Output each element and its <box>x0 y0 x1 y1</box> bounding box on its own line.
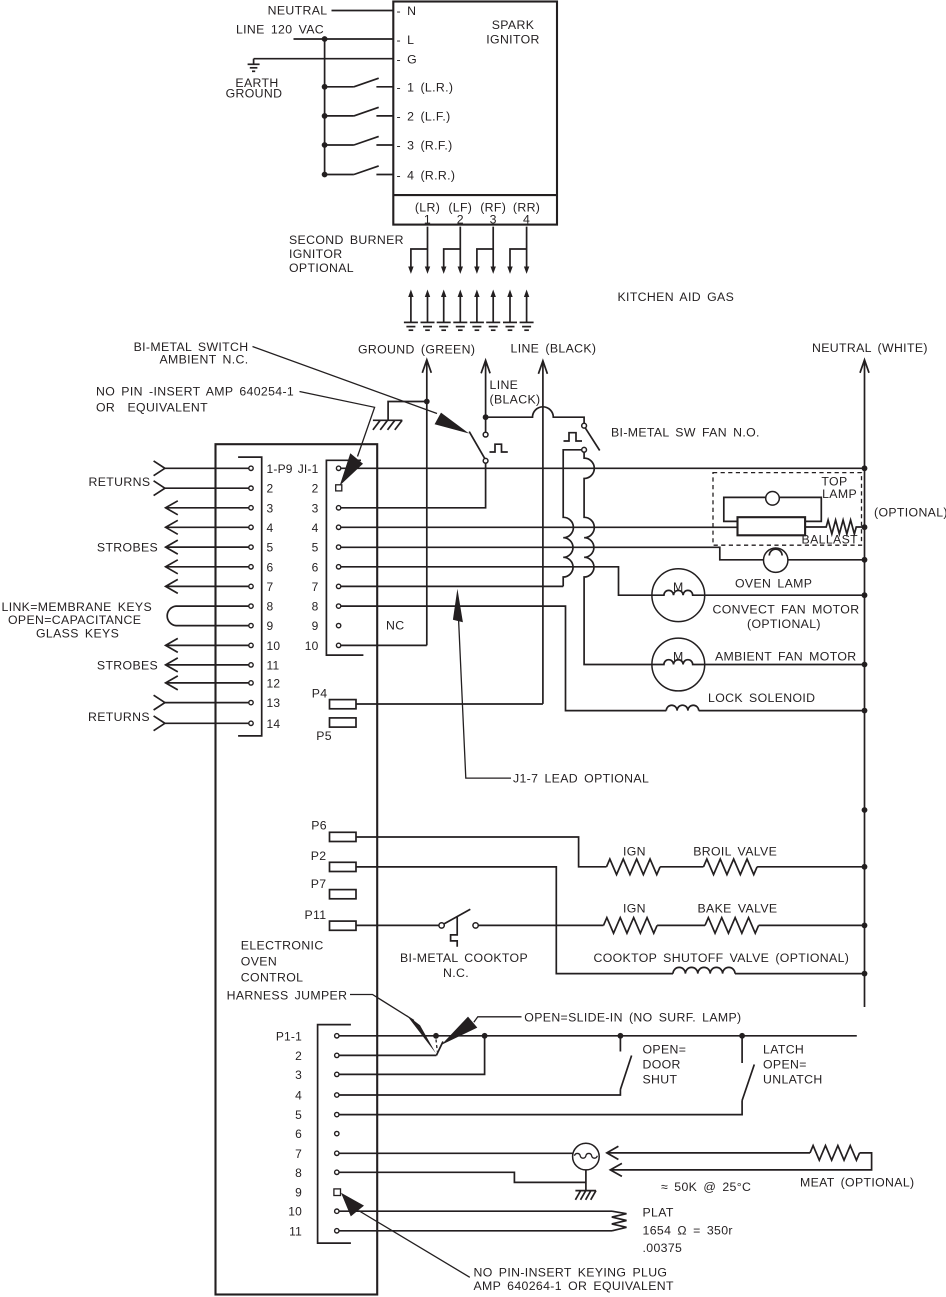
P9 pin 14 <box>249 721 253 725</box>
svg-text:8: 8 <box>267 600 274 614</box>
top lamp tube <box>738 517 806 535</box>
JI-1 pin 5 <box>336 545 340 549</box>
svg-text:AMP 640264-1 OR EQUIVALENT: AMP 640264-1 OR EQUIVALENT <box>474 1279 675 1293</box>
svg-text:LINE 120 VAC: LINE 120 VAC <box>236 23 324 37</box>
svg-text:BALLAST: BALLAST <box>802 533 859 547</box>
annotation line slide-in <box>474 1017 522 1023</box>
P9 return wire 2 <box>154 481 249 496</box>
output label (RR) 4 <box>513 201 540 227</box>
svg-text:AMBIENT FAN MOTOR: AMBIENT FAN MOTOR <box>715 650 856 664</box>
wire cooktop switch to bake ignitor <box>478 924 603 926</box>
P9 pin 10 <box>249 643 253 647</box>
svg-text:- 2 (L.F.): - 2 (L.F.) <box>397 110 451 124</box>
neutral junction dot ambient motor <box>862 662 868 668</box>
svg-text:KITCHEN AID GAS: KITCHEN AID GAS <box>618 290 735 304</box>
meat probe sensor <box>573 1143 600 1170</box>
P9 pin labels <box>267 462 293 731</box>
svg-text:OR EQUIVALENT: OR EQUIVALENT <box>96 401 208 415</box>
svg-text:CONVECT FAN MOTOR: CONVECT FAN MOTOR <box>713 603 860 617</box>
P9 strobe wire 6 <box>166 560 249 574</box>
junction dot door switch <box>618 1033 624 1039</box>
oven lamp <box>764 548 788 572</box>
svg-text:LOCK SOLENOID: LOCK SOLENOID <box>708 691 815 705</box>
P9 strobe wire 11 <box>166 658 249 672</box>
svg-text:P5: P5 <box>316 729 332 743</box>
svg-text:OPEN=: OPEN= <box>763 1058 807 1072</box>
ballast resistor <box>805 520 864 534</box>
label PLAT values <box>643 1206 733 1256</box>
wire line branch to fan switch <box>486 407 584 423</box>
svg-text:STROBES: STROBES <box>97 541 158 555</box>
svg-text:- 4 (R.R.): - 4 (R.R.) <box>397 169 456 183</box>
svg-text:11: 11 <box>289 1224 302 1238</box>
wire ambient motor to neutral <box>705 664 865 666</box>
label CONVECT FAN MOTOR (OPTIONAL) <box>713 603 860 632</box>
wire P1-11 <box>339 1230 612 1232</box>
svg-text:OPTIONAL: OPTIONAL <box>289 261 354 275</box>
wire P1-2 <box>339 1054 436 1056</box>
svg-text:10: 10 <box>288 1205 302 1219</box>
membrane link loop pins 8-9 <box>167 606 249 626</box>
P1 pin 5 <box>335 1112 339 1116</box>
P9 pin 5 <box>249 545 253 549</box>
junction dot pin3 riser <box>482 1033 488 1039</box>
svg-text:7: 7 <box>312 580 319 594</box>
P9 strobe wire 7 <box>166 579 249 593</box>
wire broil valve to neutral <box>757 866 864 868</box>
wire ground tap to chassis ground <box>388 402 427 420</box>
svg-text:LAMP: LAMP <box>822 487 857 501</box>
svg-text:5: 5 <box>267 541 274 555</box>
wire shutoff valve to neutral <box>735 973 865 975</box>
junction dot line/bus <box>322 36 328 42</box>
junction dot switch 2 <box>322 113 328 119</box>
P6 stub <box>330 832 357 841</box>
harness jumper contact <box>436 1040 443 1056</box>
svg-text:3: 3 <box>490 213 497 227</box>
svg-text:6: 6 <box>312 560 319 574</box>
svg-text:IGN: IGN <box>623 845 646 859</box>
svg-text:≈ 50K @ 25°C: ≈ 50K @ 25°C <box>661 1180 751 1194</box>
P9 pin 13 <box>249 700 253 704</box>
label LINE (BLACK) branch <box>490 378 541 407</box>
svg-text:IGN: IGN <box>623 902 646 916</box>
P5 stub <box>330 718 357 727</box>
P9 strobe wire 10 <box>166 638 249 652</box>
P9 pin 8 <box>249 604 253 608</box>
wire P2 to cooktop shutoff valve <box>356 867 673 974</box>
P9 connector bracket <box>238 457 262 736</box>
svg-text:4: 4 <box>523 213 530 227</box>
svg-text:5: 5 <box>312 541 319 555</box>
wire JI-1 pin 7 <box>341 585 564 587</box>
neutral junction dot convect motor <box>862 592 868 598</box>
svg-text:GROUND (GREEN): GROUND (GREEN) <box>358 343 475 357</box>
cooktop shutoff valve coil <box>673 967 735 973</box>
meat resistor <box>810 1146 860 1161</box>
svg-text:BAKE VALVE: BAKE VALVE <box>698 902 778 916</box>
svg-text:CONTROL: CONTROL <box>241 971 304 985</box>
annotation line keying plug <box>359 1211 470 1278</box>
svg-text:IGNITOR: IGNITOR <box>289 247 342 261</box>
svg-text:9: 9 <box>267 619 274 633</box>
bi-metal fan switch N.O. <box>564 423 600 452</box>
svg-text:GLASS KEYS: GLASS KEYS <box>36 627 119 641</box>
P1 pin labels <box>276 1029 302 1238</box>
wire P4 to line rail <box>356 703 543 705</box>
wire bake valve to neutral <box>759 924 865 926</box>
label NO PIN-INSERT KEYING PLUG AMP 640264-1 OR EQUIVALENT <box>474 1266 675 1294</box>
P2 stub <box>330 862 357 871</box>
svg-text:5: 5 <box>295 1108 302 1122</box>
junction dot switch 4 <box>322 172 328 178</box>
burner output wire 1 <box>408 227 430 274</box>
svg-text:2: 2 <box>312 482 319 496</box>
wire JI-1 pin 5 to oven lamp <box>341 547 764 560</box>
P1 pin 2 <box>335 1053 339 1057</box>
wire P1-4 to door switch <box>339 1090 620 1096</box>
PLAT resistor <box>612 1211 627 1231</box>
JI-1 pin 7 <box>336 584 340 588</box>
wire JI-1 pin 10 to ground rail <box>341 644 427 646</box>
neutral junction dot row1 <box>862 465 868 471</box>
svg-text:RETURNS: RETURNS <box>89 475 151 489</box>
svg-text:OVEN LAMP: OVEN LAMP <box>735 577 812 591</box>
svg-text:JI-1: JI-1 <box>298 462 319 476</box>
svg-text:UNLATCH: UNLATCH <box>763 1073 823 1087</box>
probe chassis ground <box>575 1191 596 1200</box>
top lamp dashed enclosure <box>713 473 862 546</box>
svg-text:(OPTIONAL): (OPTIONAL) <box>874 506 946 520</box>
svg-text:P2: P2 <box>311 849 327 863</box>
svg-text:2: 2 <box>267 482 274 496</box>
wire earth to pin G <box>254 58 394 60</box>
wire fan switch to ambient fan motor <box>584 452 652 664</box>
door switch stub <box>619 1036 621 1052</box>
wire ambient switch to JI-1 pin 3 <box>341 463 486 508</box>
P1 pin 6 <box>335 1131 339 1135</box>
P1 pin 1 <box>335 1034 339 1038</box>
label SECOND BURNER IGNITOR OPTIONAL <box>289 233 404 275</box>
svg-text:SPARK: SPARK <box>492 18 535 32</box>
lock solenoid coil <box>666 705 698 710</box>
label EARTH GROUND <box>226 76 283 101</box>
burner output wire 3 <box>474 227 496 274</box>
svg-text:IGNITOR: IGNITOR <box>486 33 539 47</box>
label ELECTRONIC OVEN CONTROL <box>241 939 324 985</box>
wire line to pin L <box>294 38 394 40</box>
second burner ignitor electrode 6 <box>486 290 500 331</box>
P9 pin 1 <box>249 466 253 470</box>
bi-metal cooktop switch N.C. <box>439 909 478 947</box>
line branch arrow <box>481 360 490 432</box>
label LINK=MEMBRANE KEYS OPEN=CAPACITANCE GLASS KEYS <box>2 600 153 641</box>
svg-text:4: 4 <box>312 521 319 535</box>
svg-text:- 1 (L.R.): - 1 (L.R.) <box>397 81 454 95</box>
svg-text:P7: P7 <box>311 877 327 891</box>
svg-text:NEUTRAL: NEUTRAL <box>268 4 328 18</box>
annotation line to JI-1 pin 2 <box>300 392 375 457</box>
annotation arrowhead ambient switch <box>435 413 469 434</box>
P1 pin 9 keyed no-pin <box>334 1189 341 1196</box>
svg-text:PLAT: PLAT <box>643 1206 674 1220</box>
P1 pin 8 <box>335 1170 339 1174</box>
wire fan switch to JI-1 pin 7 riser <box>563 450 582 587</box>
top lamp starter <box>766 492 780 506</box>
wire P1-8 to probe ground <box>339 1172 586 1182</box>
svg-text:6: 6 <box>295 1127 302 1141</box>
svg-text:COOKTOP SHUTOFF VALVE (OPTIONA: COOKTOP SHUTOFF VALVE (OPTIONAL) <box>594 951 850 965</box>
svg-text:RETURNS: RETURNS <box>88 710 150 724</box>
second burner ignitor electrode 2 <box>421 290 435 331</box>
svg-text:12: 12 <box>267 676 281 690</box>
svg-text:13: 13 <box>267 696 281 710</box>
svg-text:NC: NC <box>386 619 404 633</box>
svg-text:3: 3 <box>312 501 319 515</box>
wire JI-1 pin 1 to neutral <box>341 467 865 469</box>
JI-1 pin 3 <box>336 506 340 510</box>
P9 return wire 1 <box>154 461 249 476</box>
wire oven lamp to neutral <box>788 559 865 561</box>
JI-1 pin 9 <box>336 623 340 627</box>
svg-text:J1-7 LEAD OPTIONAL: J1-7 LEAD OPTIONAL <box>513 772 649 786</box>
bus wire <box>324 39 326 175</box>
svg-text:- 3 (R.F.): - 3 (R.F.) <box>397 139 453 153</box>
wire JI-1 pin 8 to lock solenoid <box>341 606 667 711</box>
convect fan motor M1 <box>652 569 705 622</box>
JI-1 pin 2 keyed no-pin <box>336 485 342 491</box>
junction dot switch 3 <box>322 142 328 148</box>
wire P1-10 <box>339 1210 612 1212</box>
label BI-METAL COOKTOP N.C. <box>400 951 528 980</box>
neutral junction dot shutoff <box>862 971 868 977</box>
svg-text:8: 8 <box>312 600 319 614</box>
output label (RF) 3 <box>480 201 506 227</box>
P9 strobe wire 5 <box>166 540 249 554</box>
svg-text:BROIL VALVE: BROIL VALVE <box>693 845 777 859</box>
P9 pin 2 <box>249 486 253 490</box>
svg-text:GROUND: GROUND <box>226 87 283 101</box>
wire neutral to pin N <box>332 10 394 12</box>
P9 strobe wire 4 <box>166 520 249 534</box>
svg-text:STROBES: STROBES <box>97 659 158 673</box>
P9 strobe wire 3 <box>166 501 249 515</box>
burner switch 4 <box>325 166 394 175</box>
svg-text:1: 1 <box>424 213 431 227</box>
P9 strobe wire 12 <box>166 676 249 690</box>
svg-text:SHUT: SHUT <box>643 1073 678 1087</box>
meat probe stem <box>585 1170 587 1191</box>
svg-text:AMBIENT N.C.: AMBIENT N.C. <box>159 353 248 367</box>
annotation arrowhead harness jumper <box>406 1015 436 1054</box>
svg-text:3: 3 <box>267 501 274 515</box>
P9 return wire 13 <box>154 695 249 710</box>
second burner ignitor electrode 1 <box>404 290 418 331</box>
broil valve resistor <box>704 859 758 875</box>
neutral junction dot broil <box>862 864 868 870</box>
ground rail arrow <box>422 360 431 646</box>
svg-text:P4: P4 <box>312 687 328 701</box>
P1 pin 4 <box>335 1093 339 1097</box>
svg-text:14: 14 <box>267 717 281 731</box>
svg-text:MEAT (OPTIONAL): MEAT (OPTIONAL) <box>800 1176 914 1190</box>
svg-text:2: 2 <box>295 1049 302 1063</box>
second burner ignitor electrode 4 <box>453 290 467 331</box>
svg-text:LINK=MEMBRANE KEYS: LINK=MEMBRANE KEYS <box>2 600 153 614</box>
JI-1 pin 4 <box>336 525 340 529</box>
wire P11 to cooktop switch <box>356 924 439 926</box>
wire JI-1 pin 4 to top lamp <box>341 526 738 528</box>
svg-text:P6: P6 <box>311 819 327 833</box>
wire ign to bake valve <box>657 924 705 926</box>
neutral junction dot oven lamp <box>862 557 868 563</box>
wire P1-5 to latch switch <box>339 1101 742 1115</box>
svg-text:7: 7 <box>267 580 274 594</box>
svg-text:7: 7 <box>295 1147 302 1161</box>
bake valve resistor <box>705 918 759 934</box>
P4 stub <box>330 700 357 709</box>
second burner ignitor electrode 5 <box>470 290 484 331</box>
svg-text:3: 3 <box>295 1068 302 1082</box>
output label (LF) 2 <box>448 201 472 227</box>
burner switch 1 <box>325 78 394 87</box>
JI-1 pin 8 <box>336 604 340 608</box>
svg-text:11: 11 <box>267 658 280 672</box>
second burner ignitor electrode 3 <box>437 290 451 331</box>
annotation arrowhead keying plug <box>341 1193 364 1217</box>
svg-text:OVEN: OVEN <box>241 955 277 969</box>
svg-text:10: 10 <box>305 639 319 653</box>
P1 pin 3 <box>335 1072 339 1076</box>
wire P1-3 to pin1 <box>339 1036 485 1075</box>
bake ignitor resistor IGN <box>604 918 658 934</box>
annotation arrowhead JI-1 pin 2 <box>340 453 363 485</box>
door switch blade <box>620 1056 631 1090</box>
meat probe arrow upper <box>607 1146 810 1159</box>
svg-text:- N: - N <box>397 4 417 18</box>
spark ignitor module box <box>393 2 557 225</box>
P1 pin 7 <box>335 1151 339 1155</box>
junction dot switch 1 <box>322 84 328 90</box>
electronic oven control board box <box>216 444 378 1294</box>
wire P6 to broil ignitor <box>356 837 607 867</box>
P1 connector bracket <box>318 1025 351 1244</box>
label LATCH OPEN= UNLATCH <box>763 1043 823 1087</box>
P9 pin 4 <box>249 525 253 529</box>
second burner ignitor electrode 8 <box>520 290 534 331</box>
P1 pin 11 <box>335 1229 339 1233</box>
P9 pin 11 <box>249 663 253 667</box>
svg-text:2: 2 <box>457 213 464 227</box>
svg-text:P11: P11 <box>304 908 326 922</box>
neutral junction dot lock solenoid <box>862 708 868 714</box>
JI-1 pin 6 <box>336 565 340 569</box>
label TOP LAMP <box>821 475 857 502</box>
neutral junction dot bake <box>862 923 868 929</box>
svg-text:10: 10 <box>267 639 281 653</box>
label OPEN= DOOR SHUT <box>643 1043 687 1087</box>
chassis ground symbol <box>373 420 402 430</box>
svg-text:- L: - L <box>397 33 415 47</box>
burner output wire 2 <box>441 227 463 274</box>
svg-text:LATCH: LATCH <box>763 1043 804 1057</box>
svg-text:- G: - G <box>397 53 418 67</box>
P1 pin 10 <box>335 1209 339 1213</box>
junction dot jumper <box>433 1033 439 1039</box>
broil ignitor resistor IGN <box>607 859 661 875</box>
burner switch 3 <box>325 136 394 145</box>
P11 stub <box>330 921 357 930</box>
svg-text:SECOND BURNER: SECOND BURNER <box>289 233 404 247</box>
neutral junction dot ballast <box>862 524 868 530</box>
svg-text:1654 Ω = 350r: 1654 Ω = 350r <box>643 1224 733 1238</box>
svg-text:4: 4 <box>295 1089 302 1103</box>
second burner ignitor electrode 7 <box>503 290 517 331</box>
svg-text:LINE (BLACK): LINE (BLACK) <box>511 342 597 356</box>
wire ign to broil valve <box>660 866 703 868</box>
wire convect motor to neutral <box>705 594 865 596</box>
junction dot line branch <box>483 414 489 420</box>
latch switch blade <box>742 1065 754 1101</box>
annotation line to ambient switch <box>253 347 438 414</box>
P9 pin 3 <box>249 506 253 510</box>
burner output wire 4 <box>507 227 529 274</box>
P9 return wire 14 <box>154 716 249 731</box>
P9 pin 6 <box>249 565 253 569</box>
wire P1-1 <box>339 1035 857 1037</box>
annotation arrowhead slide-in <box>441 1017 477 1045</box>
svg-text:ELECTRONIC: ELECTRONIC <box>241 939 324 953</box>
svg-text:NO PIN -INSERT AMP 640254-1: NO PIN -INSERT AMP 640254-1 <box>96 385 294 399</box>
svg-text:.00375: .00375 <box>643 1241 683 1255</box>
svg-text:BI-METAL COOKTOP: BI-METAL COOKTOP <box>400 951 528 965</box>
line rail arrow <box>538 361 547 704</box>
svg-text:(BLACK): (BLACK) <box>490 393 541 407</box>
svg-text:LINE: LINE <box>490 378 519 392</box>
label BI-METAL SWITCH AMBIENT N.C. <box>134 340 249 367</box>
svg-text:(OPTIONAL): (OPTIONAL) <box>747 617 821 631</box>
svg-text:P1-1: P1-1 <box>276 1029 302 1043</box>
P7 stub <box>330 890 357 899</box>
junction dot latch switch <box>739 1033 745 1039</box>
output label (LR) 1 <box>415 201 440 227</box>
svg-text:NEUTRAL (WHITE): NEUTRAL (WHITE) <box>812 341 928 355</box>
svg-text:1-P9: 1-P9 <box>267 462 293 476</box>
svg-text:9: 9 <box>295 1186 302 1200</box>
neutral rail arrow <box>860 360 869 1007</box>
P9 pin 7 <box>249 584 253 588</box>
svg-text:8: 8 <box>295 1166 302 1180</box>
P9 pin 9 <box>249 623 253 627</box>
J1-7 annotation arrowhead <box>453 589 463 623</box>
JI-1 pin 10 <box>336 643 340 647</box>
svg-text:BI-METAL SW FAN N.O.: BI-METAL SW FAN N.O. <box>611 426 760 440</box>
svg-text:OPEN=SLIDE-IN (NO SURF. LAMP): OPEN=SLIDE-IN (NO SURF. LAMP) <box>524 1011 741 1025</box>
annotation line harness jumper <box>350 995 414 1021</box>
meat probe arrow lower <box>610 1153 871 1177</box>
wire lock solenoid to neutral <box>699 710 865 712</box>
ambient fan motor M2 <box>652 638 705 691</box>
label NO PIN -INSERT AMP 640254-1 OR EQUIVALENT <box>96 385 294 415</box>
svg-text:9: 9 <box>312 619 319 633</box>
svg-text:N.C.: N.C. <box>443 966 469 980</box>
P9 pin 12 <box>249 681 253 685</box>
neutral junction dot mid <box>862 807 868 813</box>
svg-text:OPEN=CAPACITANCE: OPEN=CAPACITANCE <box>8 613 141 627</box>
svg-text:6: 6 <box>267 560 274 574</box>
top lamp wiring <box>724 497 822 521</box>
svg-text:DOOR: DOOR <box>643 1058 681 1072</box>
